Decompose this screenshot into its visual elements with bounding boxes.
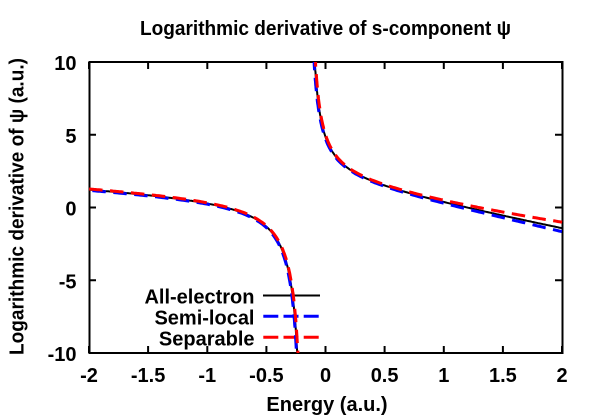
svg-text:2: 2 [556,365,567,387]
svg-text:5: 5 [65,126,76,148]
svg-text:Semi-local: Semi-local [154,308,254,330]
svg-text:1.5: 1.5 [489,365,517,387]
svg-text:Logarithmic derivative of ψ (a: Logarithmic derivative of ψ (a.u.) [7,58,29,355]
svg-text:10: 10 [54,53,76,75]
svg-text:-0.5: -0.5 [249,365,283,387]
svg-text:-10: -10 [48,344,77,366]
svg-text:-1.5: -1.5 [131,365,165,387]
svg-text:Logarithmic derivative of s-co: Logarithmic derivative of s-component ψ [140,18,511,40]
plot border [90,62,563,353]
axis ticks [89,62,562,353]
svg-text:-1: -1 [198,365,216,387]
svg-text:-2: -2 [80,365,98,387]
svg-text:1: 1 [438,365,449,387]
curve Separable (red dashed) [89,189,298,362]
curve Semi-local (blue dashed) [89,190,297,361]
svg-text:0: 0 [320,365,331,387]
svg-text:0.5: 0.5 [371,365,399,387]
svg-text:Separable: Separable [159,329,255,351]
curve All-electron (black solid) [89,53,562,362]
svg-text:Energy (a.u.): Energy (a.u.) [266,394,387,416]
svg-text:-5: -5 [59,271,77,293]
svg-text:All-electron: All-electron [144,287,254,309]
svg-text:0: 0 [65,199,76,221]
